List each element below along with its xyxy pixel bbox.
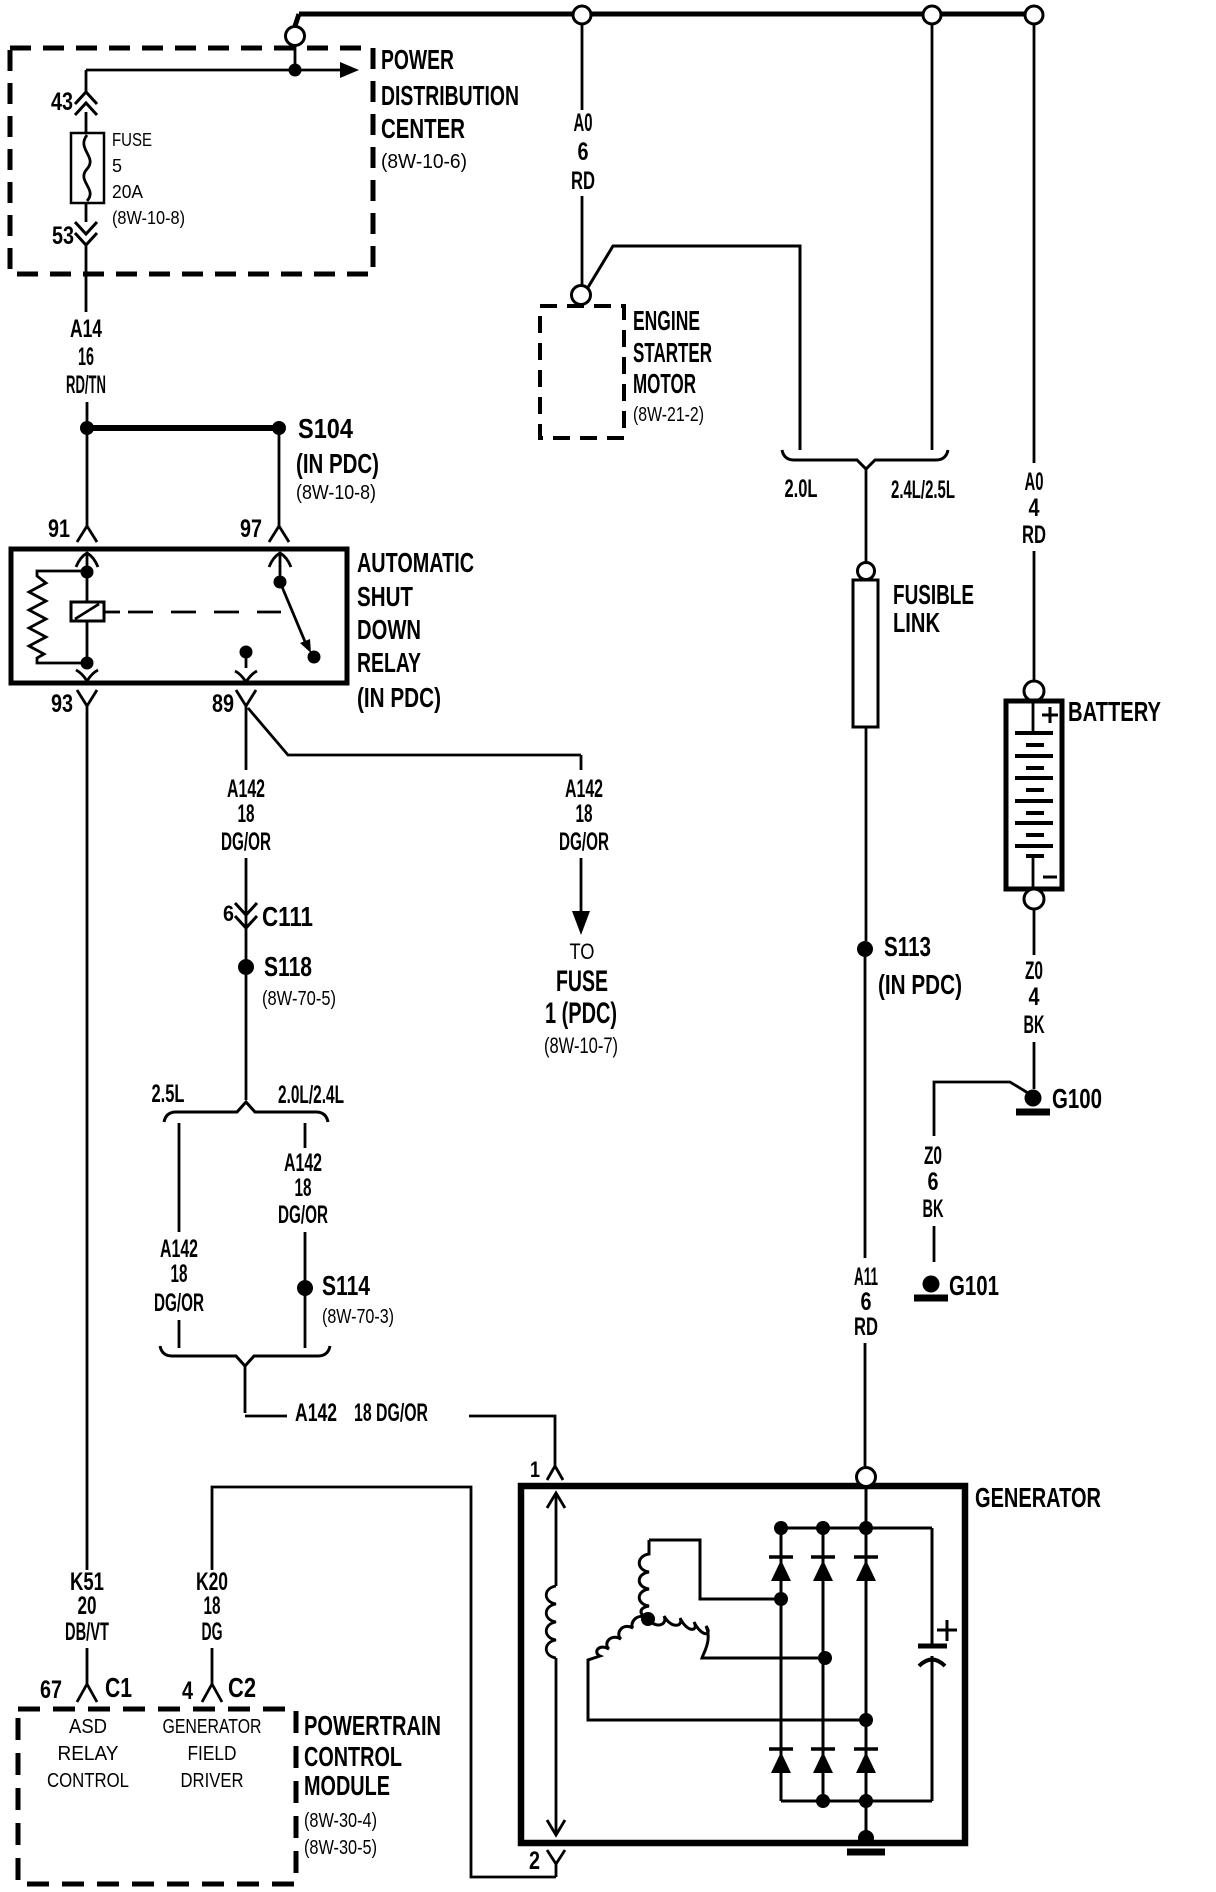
splice S118 dot [238, 959, 254, 975]
generator stator winding 3 diagonal coil right [648, 1616, 818, 1658]
svg-text:6: 6 [578, 138, 589, 166]
svg-text:GENERATOR: GENERATOR [975, 1482, 1101, 1513]
svg-text:DG: DG [202, 1618, 223, 1646]
wire Z0 6 BK to G101 [933, 1226, 936, 1262]
arrowhead to fuse 1 PDC [572, 911, 590, 935]
capacitor C branch [931, 1528, 934, 1801]
node connector circle generator output [857, 1468, 876, 1487]
svg-text:(IN PDC): (IN PDC) [296, 448, 379, 479]
relay coil bottom junction dot [81, 657, 94, 670]
svg-text:A142: A142 [160, 1235, 198, 1263]
svg-text:A11: A11 [854, 1263, 878, 1291]
svg-text:AUTOMATIC: AUTOMATIC [357, 547, 474, 578]
svg-text:S118: S118 [264, 951, 312, 982]
engine starter motor dashed box [540, 306, 624, 438]
svg-text:DG/OR: DG/OR [278, 1201, 328, 1229]
svg-text:2.5L: 2.5L [152, 1080, 185, 1108]
svg-text:Z0: Z0 [924, 1142, 942, 1170]
wire fusible link to S113 [865, 727, 868, 941]
wire 2.0L/2.4L branch A142 [304, 1123, 307, 1280]
svg-text:MOTOR: MOTOR [633, 368, 696, 399]
svg-text:SHUT: SHUT [357, 581, 413, 612]
svg-text:DISTRIBUTION: DISTRIBUTION [381, 80, 519, 111]
resistor relay shunt [29, 571, 87, 663]
svg-text:1: 1 [530, 1457, 540, 1482]
stator phase dot right branch [859, 1713, 873, 1727]
svg-text:FUSE: FUSE [556, 965, 608, 998]
node connector circle A0 feed [573, 6, 591, 24]
node connector circle fusible link feed [923, 6, 941, 24]
wire A0 from bus to starter [581, 24, 584, 286]
svg-text:S114: S114 [322, 1270, 370, 1301]
svg-text:18: 18 [171, 1260, 188, 1288]
splice S114 dot [297, 1280, 313, 1296]
pin 2 fork [547, 1850, 565, 1877]
svg-text:DG/OR: DG/OR [154, 1289, 204, 1317]
svg-text:1 (PDC): 1 (PDC) [545, 997, 617, 1030]
svg-text:97: 97 [240, 515, 262, 543]
svg-text:(8W-70-5): (8W-70-5) [262, 988, 336, 1010]
relay coil K1 [86, 578, 89, 602]
relay switch arm [280, 582, 306, 644]
wire pin 91 to coil [86, 553, 89, 572]
svg-text:16: 16 [78, 343, 94, 371]
svg-text:DG/OR: DG/OR [221, 828, 271, 856]
diode D1 [769, 1555, 793, 1559]
svg-text:(8W-21-2): (8W-21-2) [633, 404, 704, 426]
splice S104 bus [87, 425, 279, 431]
generator field coil [546, 1586, 556, 1658]
svg-text:G101: G101 [949, 1270, 999, 1301]
svg-text:RELAY: RELAY [58, 1743, 119, 1765]
svg-text:LINK: LINK [893, 607, 940, 638]
svg-text:RELAY: RELAY [357, 647, 421, 678]
generator stator winding 2 diagonal coil left [588, 1616, 859, 1720]
wire PDC internal feed with arrow [86, 69, 340, 72]
fuse F5 element wavy [84, 135, 90, 201]
svg-text:43: 43 [51, 88, 73, 116]
rectifier top rail [781, 1527, 932, 1530]
pin 91 fork [77, 521, 97, 542]
capacitor plus sign [937, 1620, 957, 1641]
pin 89 inner chevron [235, 671, 257, 682]
svg-text:6: 6 [861, 1288, 872, 1316]
svg-text:C2: C2 [228, 1672, 256, 1703]
stator phase dot left branch [774, 1592, 788, 1606]
svg-text:18: 18 [204, 1592, 221, 1620]
wire pin 2 loop to PCM C2 [212, 1487, 556, 1877]
svg-text:4: 4 [182, 1677, 193, 1705]
pin 89 fork [236, 690, 256, 722]
wire Z0 4 BK battery to G100 [1033, 909, 1036, 1089]
svg-text:2: 2 [529, 1847, 540, 1875]
svg-text:20: 20 [78, 1592, 97, 1620]
svg-text:18: 18 [576, 800, 593, 828]
pin 93 inner chevron [76, 670, 98, 681]
wire branch starter node to fusible link brace [587, 246, 800, 450]
svg-text:18: 18 [295, 1174, 312, 1202]
svg-text:ASD: ASD [69, 1716, 107, 1738]
pin C1 fork [77, 1668, 97, 1702]
pin 53 double chevron [75, 222, 97, 245]
pin C2 fork [202, 1668, 222, 1702]
power distribution center dashed box [10, 48, 373, 274]
wire K51 from pin 93 to C1 [86, 722, 89, 1668]
svg-text:A142: A142 [284, 1149, 322, 1177]
relay actuation dashed link [104, 611, 120, 614]
svg-text:A0: A0 [1025, 468, 1044, 496]
relay NO contact dot [308, 651, 321, 664]
svg-text:A142: A142 [565, 775, 603, 803]
diode D4 [769, 1747, 793, 1751]
diode D6 [854, 1747, 878, 1751]
wire pin 97 chevron to contact [269, 553, 291, 578]
rectifier bottom rail [781, 1800, 932, 1803]
generator internal ground [858, 1830, 874, 1846]
svg-text:(8W-70-3): (8W-70-3) [322, 1306, 394, 1328]
svg-text:89: 89 [212, 690, 234, 718]
wire fuse to pin 53 [85, 203, 88, 222]
wire 2.5L branch A142 [178, 1123, 181, 1348]
svg-text:GENERATOR: GENERATOR [163, 1716, 262, 1738]
wire branch to G101 tap [934, 1082, 1028, 1136]
wire merged A142 to generator pin 1 [245, 1365, 555, 1466]
battery internal bottom lead [1032, 856, 1035, 887]
relay common contact dot [274, 576, 287, 589]
wire brace to fusible link [865, 468, 868, 562]
svg-text:C1: C1 [105, 1672, 132, 1703]
node connector circle above PDC [286, 27, 305, 46]
wire pin 89 diagonal branch to fuse 1 [248, 708, 581, 913]
battery internal top lead [1032, 703, 1035, 733]
svg-text:RD: RD [571, 167, 595, 195]
svg-text:(IN PDC): (IN PDC) [878, 969, 962, 1000]
battery B1 body [1006, 701, 1062, 889]
svg-text:(8W-10-7): (8W-10-7) [544, 1033, 618, 1058]
wire S104 to relay pin 91 [86, 435, 89, 521]
rectifier branch middle [822, 1528, 825, 1801]
capacitor plates [918, 1644, 947, 1649]
svg-text:2.0L: 2.0L [785, 475, 818, 503]
svg-text:(8W-30-5): (8W-30-5) [304, 1837, 377, 1859]
svg-text:BK: BK [923, 1195, 944, 1223]
junction dot on PDC feed [289, 64, 302, 77]
wire pin 89 down A142 [245, 722, 248, 960]
svg-text:CONTROL: CONTROL [47, 1770, 129, 1792]
arrowhead PDC feed [340, 62, 359, 78]
wire down to pin 43 [85, 70, 88, 92]
diode D5 [811, 1747, 835, 1751]
stator junction dot [641, 1612, 655, 1626]
generator stator top link [649, 1540, 774, 1599]
pin 43 double chevron [75, 92, 97, 115]
svg-text:DOWN: DOWN [357, 614, 421, 645]
svg-text:93: 93 [51, 690, 73, 718]
svg-text:G100: G100 [1052, 1083, 1102, 1114]
svg-text:RD: RD [1022, 521, 1046, 549]
stator phase dot middle branch [818, 1651, 832, 1665]
relay pin 89 contact dot [240, 646, 253, 659]
svg-text:POWERTRAIN: POWERTRAIN [304, 1710, 441, 1741]
wire A14 16 RD/TN [86, 244, 87, 421]
fusible link body [853, 580, 878, 727]
ground G100 symbol [1025, 1090, 1042, 1107]
powertrain control module dashed box [18, 1709, 296, 1884]
svg-text:FUSIBLE: FUSIBLE [893, 579, 974, 610]
wire S114 to lower brace [304, 1295, 307, 1348]
node connector circle battery positive [1024, 681, 1044, 701]
svg-text:A14: A14 [70, 315, 102, 343]
svg-text:C111: C111 [262, 901, 313, 932]
pin 97 fork [269, 521, 289, 542]
svg-text:6: 6 [223, 901, 234, 926]
ground G101 symbol [923, 1276, 940, 1293]
field arrow up [547, 1493, 565, 1508]
svg-text:DB/VT: DB/VT [65, 1618, 109, 1646]
node connector circle battery negative [1024, 889, 1044, 909]
svg-text:S113: S113 [884, 931, 931, 962]
svg-text:(8W-10-6): (8W-10-6) [381, 151, 467, 173]
pin 1 fork [547, 1466, 563, 1480]
battery plates [1015, 733, 1053, 846]
svg-text:A142: A142 [295, 1399, 337, 1427]
svg-text:STARTER: STARTER [633, 337, 712, 368]
wire top power bus [295, 14, 1034, 26]
wire S104 to relay pin 97 [278, 435, 281, 521]
wire contact to pin 89 chevron [245, 652, 248, 668]
battery plus sign [1042, 707, 1058, 723]
connector C111 double chevron [235, 903, 257, 928]
svg-text:FUSE: FUSE [112, 130, 152, 150]
fuse F5 body [71, 133, 104, 203]
field arrow down [547, 1820, 565, 1835]
svg-text:91: 91 [48, 515, 70, 543]
svg-text:2.4L/2.5L: 2.4L/2.5L [891, 476, 955, 504]
svg-text:S104: S104 [298, 413, 353, 444]
generator field wire with arrows [555, 1494, 558, 1834]
pin 93 fork [77, 690, 97, 722]
generator box [521, 1486, 965, 1843]
svg-text:53: 53 [52, 222, 74, 250]
svg-text:4: 4 [1029, 983, 1040, 1011]
rectifier branch left [780, 1528, 783, 1801]
svg-text:DRIVER: DRIVER [181, 1770, 244, 1792]
relay coil top junction dot [81, 566, 94, 579]
node connector circle battery feed [1025, 6, 1043, 24]
pin 91 inner chevron [76, 553, 98, 567]
svg-text:20A: 20A [112, 182, 143, 202]
brace lower merge [160, 1346, 330, 1366]
svg-text:TO: TO [570, 939, 595, 964]
svg-text:18 DG/OR: 18 DG/OR [354, 1399, 428, 1427]
svg-text:6: 6 [928, 1168, 939, 1196]
node connector circle engine starter motor [572, 286, 591, 305]
diode D2 [811, 1555, 835, 1559]
svg-text:DG/OR: DG/OR [559, 828, 609, 856]
generator stator winding 1 vertical coil [639, 1540, 649, 1618]
wire from bus circle to brace right arm [931, 24, 934, 450]
wire pin 43 to fuse [85, 112, 88, 133]
svg-text:67: 67 [40, 1676, 62, 1704]
svg-text:Z0: Z0 [1025, 957, 1043, 985]
svg-text:A142: A142 [227, 775, 265, 803]
svg-text:RD/TN: RD/TN [66, 371, 106, 399]
rectifier branch right [865, 1487, 868, 1837]
svg-text:ENGINE: ENGINE [633, 305, 700, 336]
svg-text:18: 18 [238, 800, 255, 828]
svg-text:CONTROL: CONTROL [304, 1741, 402, 1772]
node connector circle fusible link top [858, 563, 875, 580]
brace 2.0L / 2.4L-2.5L [782, 450, 948, 469]
svg-text:(8W-10-8): (8W-10-8) [296, 482, 376, 504]
svg-text:POWER: POWER [381, 44, 454, 75]
wire S113 to generator A11 [864, 957, 867, 1469]
rail dots [774, 1521, 788, 1535]
svg-text:RD: RD [854, 1313, 878, 1341]
svg-text:4: 4 [1029, 494, 1040, 522]
svg-text:BATTERY: BATTERY [1068, 696, 1161, 727]
battery minus sign [1043, 876, 1057, 879]
svg-text:BK: BK [1024, 1011, 1045, 1039]
wire S118 to engine brace [245, 975, 248, 1100]
wire circle to PDC junction [294, 45, 297, 70]
svg-text:2.0L/2.4L: 2.0L/2.4L [278, 1081, 344, 1109]
svg-text:(8W-30-4): (8W-30-4) [304, 1810, 377, 1832]
svg-text:A0: A0 [574, 109, 593, 137]
svg-text:CENTER: CENTER [381, 113, 465, 144]
wire A0 4 RD battery feed [1033, 24, 1036, 681]
automatic shut down relay box [11, 549, 347, 683]
splice S113 dot [857, 941, 873, 957]
svg-text:(8W-10-8): (8W-10-8) [112, 208, 185, 228]
diode D3 [854, 1555, 878, 1559]
svg-text:5: 5 [112, 156, 122, 176]
brace 2.5L / 2.0L-2.4L upper [164, 1102, 328, 1122]
svg-text:(IN PDC): (IN PDC) [357, 682, 441, 713]
svg-text:MODULE: MODULE [304, 1770, 390, 1801]
svg-text:FIELD: FIELD [188, 1743, 237, 1765]
